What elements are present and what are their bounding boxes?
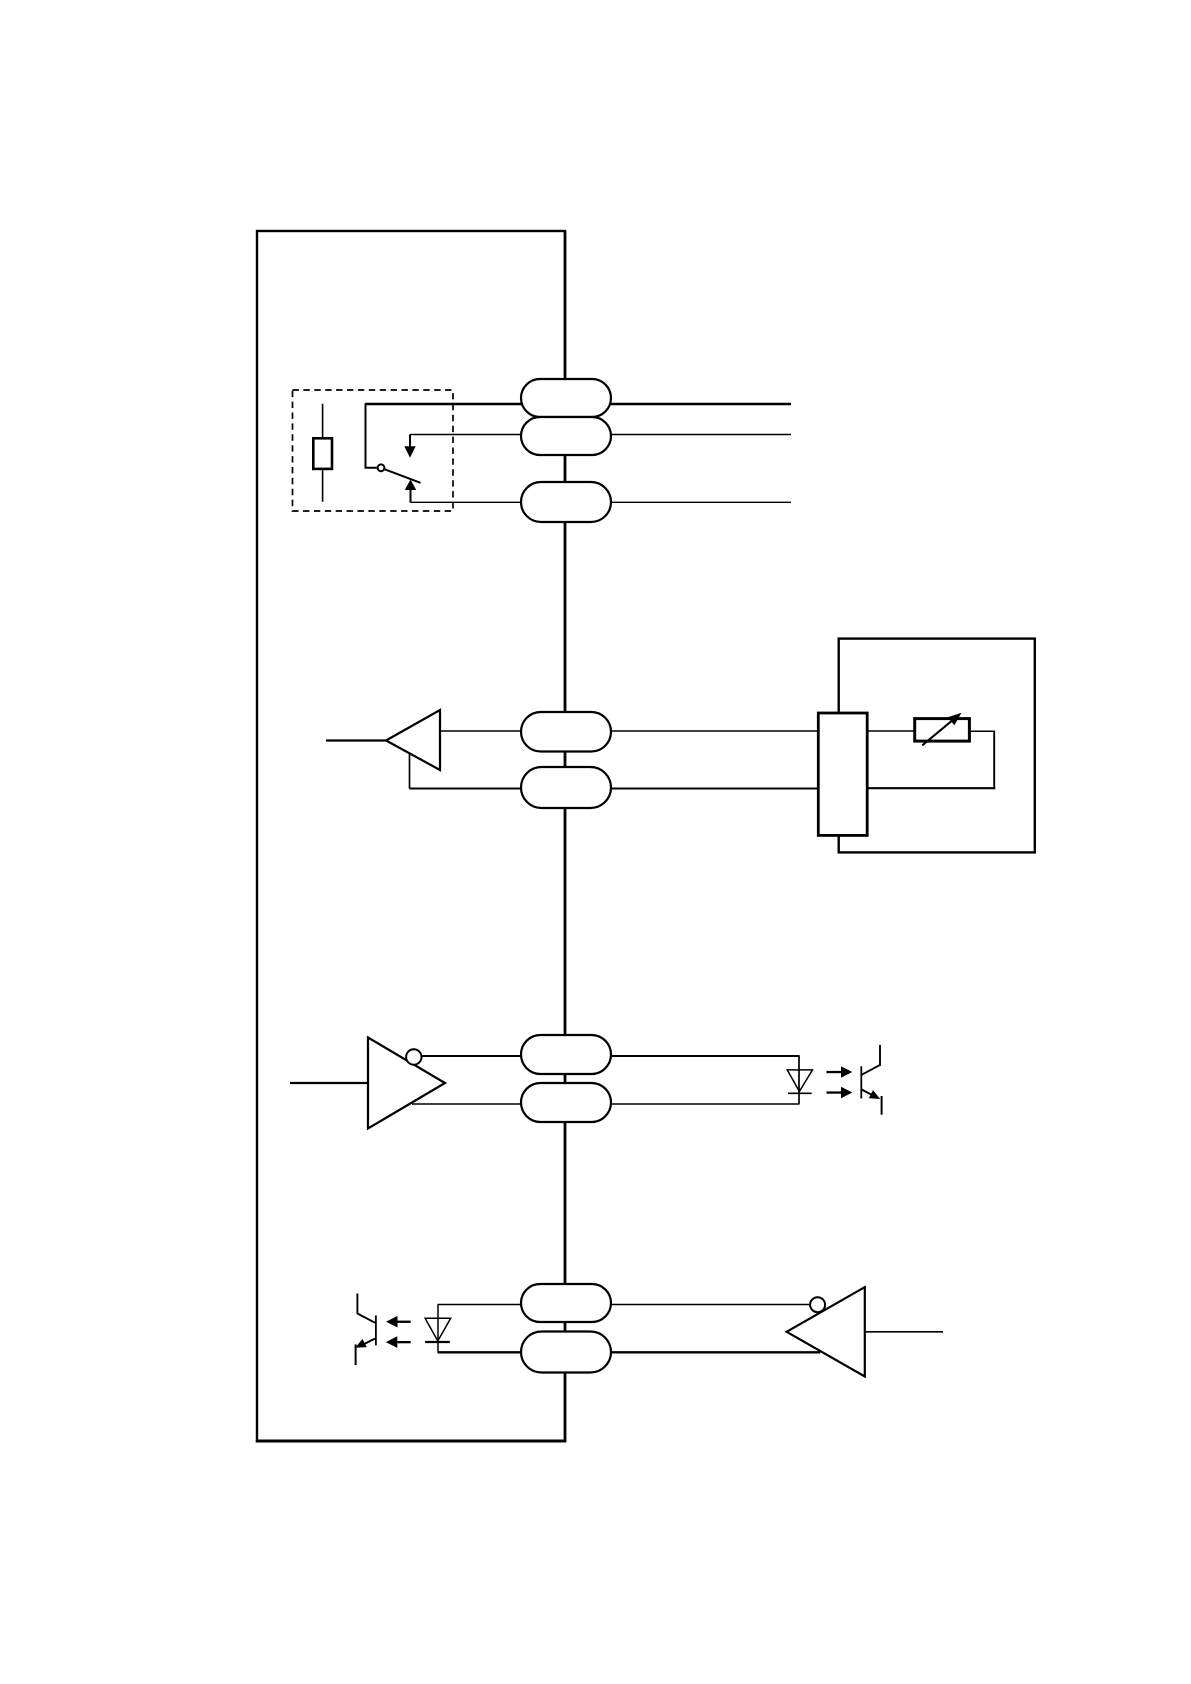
connector pin 5 (521, 767, 611, 808)
connector pin 7 (521, 1083, 611, 1122)
photocoupler PC1 LED (787, 1070, 812, 1093)
inverter U2 bubble (406, 1049, 421, 1064)
main unit box bottom edge (256, 1440, 567, 1443)
NC contact arrow (404, 435, 415, 458)
photocoupler PC2 LED drop wire (437, 1305, 439, 1353)
volume connector block (818, 713, 867, 835)
connector pin 9 (521, 1332, 611, 1373)
PC2 phototransistor (355, 1294, 376, 1366)
relay coil bottom lead (322, 469, 324, 502)
relay common branch wire (366, 404, 378, 468)
relay coil (313, 438, 332, 469)
photocoupler PC1 LED drop wire (798, 1056, 800, 1104)
inverter U2 (output driver, points right) (368, 1038, 445, 1129)
connector pin 2 (521, 417, 611, 455)
wire block to potentiometer (867, 730, 915, 732)
inverter U3 input lead (865, 1331, 943, 1333)
connector pin 6 (521, 1035, 611, 1074)
relay RY1 dashed enclosure (293, 390, 454, 511)
connector pin 3 (521, 482, 611, 522)
inverter U3 bubble (810, 1297, 825, 1312)
trunk wire (pin column) (564, 231, 567, 1441)
wire pin1 (relay common, thick) (365, 403, 791, 405)
wire pin7 (output return) (412, 1103, 800, 1105)
wire pin5 (volume return) (410, 788, 819, 790)
main unit box (257, 231, 565, 1441)
photocoupler PC2 LED (425, 1318, 451, 1342)
NO contact arrow (405, 480, 416, 503)
PC1 light arrow lower (827, 1087, 853, 1099)
PC2 light arrow lower (386, 1336, 411, 1348)
relay coil top lead (322, 404, 324, 439)
external volume box (839, 639, 1035, 853)
connector pin 1 (521, 379, 611, 417)
wire pin6 (output signal) (422, 1055, 800, 1057)
PC2 light arrow upper (386, 1316, 411, 1328)
wire pin2 (relay NC contact) (410, 434, 791, 436)
PC1 light arrow upper (827, 1066, 853, 1078)
connector pin 8 (521, 1284, 611, 1322)
buffer U1 (volume drive, points left) (386, 710, 440, 770)
switch pivot (378, 464, 385, 471)
wire pin4 (volume wiper) (440, 730, 819, 732)
potentiometer arrow (922, 713, 961, 746)
potentiometer VR1 (915, 719, 970, 742)
potentiometer return loop (867, 731, 996, 790)
wire pin3 (relay NO contact) (411, 501, 792, 503)
buffer U1 output lead (326, 739, 386, 741)
connector pin 4 (521, 712, 611, 752)
inverter U2 input lead (290, 1082, 368, 1084)
feedback riser to U1 (409, 754, 411, 789)
wire pin9 (input return, thick) (438, 1351, 821, 1353)
wire pin8 (input signal) (438, 1304, 811, 1306)
inverter U3 (input receiver, points left) (787, 1287, 865, 1376)
switch blade (384, 469, 420, 483)
PC1 phototransistor (861, 1045, 881, 1115)
